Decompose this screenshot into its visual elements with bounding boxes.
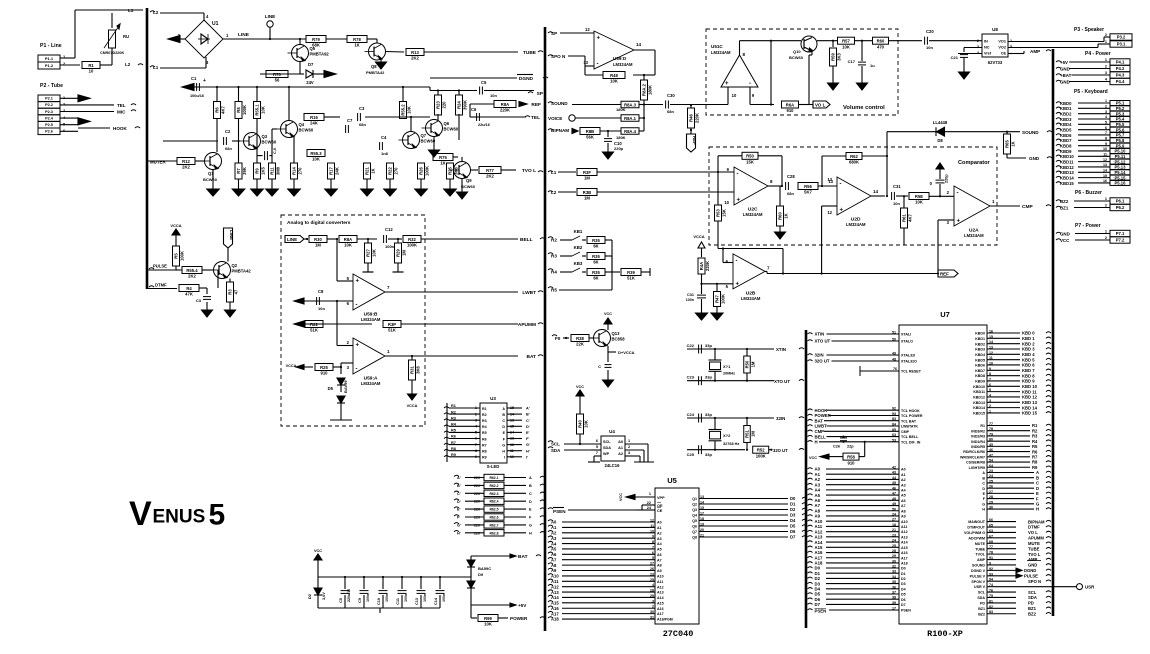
svg-text:R62.7: R62.7 (489, 523, 498, 527)
svg-text:D7: D7 (815, 602, 821, 607)
svg-text:2K2: 2K2 (411, 56, 419, 61)
svg-text:R48: R48 (610, 73, 618, 78)
svg-text:46: 46 (892, 486, 896, 490)
svg-text:R55.3: R55.3 (310, 151, 322, 156)
svg-text:A5: A5 (657, 548, 662, 552)
svg-text:68n: 68n (359, 122, 366, 127)
svg-text:SPON V: SPON V (971, 580, 985, 584)
svg-text:93: 93 (892, 412, 896, 416)
svg-text:3: 3 (947, 220, 950, 225)
svg-text:REF: REF (692, 136, 697, 145)
svg-text:R6A: R6A (786, 102, 794, 107)
svg-text:2: 2 (1105, 105, 1107, 109)
svg-text:220: 220 (474, 476, 480, 480)
svg-text:47K: 47K (185, 292, 193, 297)
svg-text:VCC: VCC (314, 549, 322, 553)
svg-text:C9: C9 (358, 598, 362, 603)
svg-text:KBD5: KBD5 (975, 358, 985, 362)
svg-text:BAT: BAT (526, 354, 536, 360)
svg-text:33p: 33p (705, 412, 712, 417)
svg-text:390K: 390K (463, 100, 468, 110)
svg-text:F0: F0 (555, 336, 561, 341)
svg-text:+BAT: +BAT (1060, 73, 1072, 78)
svg-text:53: 53 (892, 438, 896, 442)
svg-text:A16: A16 (901, 551, 908, 555)
svg-text:32: 32 (892, 565, 896, 569)
svg-text:P6 - Buzzer: P6 - Buzzer (1075, 190, 1102, 196)
svg-text:DGND: DGND (519, 76, 534, 82)
svg-text:R1: R1 (88, 63, 94, 68)
svg-text:KBD1: KBD1 (1060, 106, 1072, 111)
svg-text:D1: D1 (790, 502, 796, 507)
svg-text:P6.2: P6.2 (1116, 205, 1125, 210)
svg-text:BC858: BC858 (612, 337, 626, 342)
svg-text:KBD3: KBD3 (975, 348, 985, 352)
svg-text:L2: L2 (125, 62, 131, 67)
svg-text:TCL RESET: TCL RESET (901, 370, 922, 374)
svg-text:32768 Hz: 32768 Hz (723, 442, 739, 446)
svg-text:1M: 1M (402, 250, 407, 256)
svg-text:B: B (502, 413, 505, 417)
svg-text:LM324AM: LM324AM (613, 62, 633, 67)
svg-text:R62.5: R62.5 (489, 508, 498, 512)
svg-text:R35: R35 (592, 254, 600, 259)
svg-text:A18: A18 (901, 562, 908, 566)
svg-text:23: 23 (650, 572, 654, 576)
svg-text:R99: R99 (484, 616, 492, 621)
svg-text:28: 28 (650, 589, 654, 593)
svg-text:15K: 15K (722, 209, 727, 217)
svg-text:P5.8: P5.8 (1116, 138, 1125, 143)
svg-text:25: 25 (650, 578, 654, 582)
svg-text:11: 11 (1103, 153, 1107, 157)
svg-text:1: 1 (226, 33, 229, 38)
svg-text:P1.1: P1.1 (45, 56, 54, 61)
svg-text:A11: A11 (551, 579, 559, 584)
svg-text:1K: 1K (784, 213, 789, 218)
svg-text:C: C (982, 482, 985, 486)
svg-text:R78: R78 (353, 37, 361, 42)
svg-text:-: - (840, 182, 842, 188)
svg-text:R58: R58 (847, 454, 855, 459)
svg-text:D3: D3 (790, 513, 796, 518)
svg-text:6K: 6K (593, 244, 598, 249)
svg-text:C13: C13 (415, 598, 419, 605)
svg-text:R62.2: R62.2 (489, 484, 498, 488)
svg-text:7: 7 (652, 545, 654, 549)
svg-text:PSEN: PSEN (901, 609, 911, 613)
svg-text:470: 470 (877, 44, 885, 49)
svg-text:KBD7: KBD7 (975, 369, 985, 373)
svg-text:ENUS: ENUS (153, 507, 206, 528)
svg-text:R8A.4: R8A.4 (624, 129, 637, 134)
svg-text:R8A.3: R8A.3 (624, 102, 637, 107)
svg-text:KBD13: KBD13 (1060, 170, 1074, 175)
svg-text:R14: R14 (292, 166, 297, 174)
svg-text:30: 30 (892, 559, 896, 563)
svg-text:R8: R8 (451, 447, 456, 451)
svg-text:+5V: +5V (518, 603, 527, 608)
svg-text:17: 17 (892, 607, 896, 611)
svg-text:100u/16: 100u/16 (190, 94, 204, 98)
svg-text:Q13: Q13 (612, 331, 621, 336)
svg-text:24LC16: 24LC16 (605, 463, 621, 468)
svg-text:10: 10 (89, 69, 94, 74)
svg-text:KBD 7: KBD 7 (1022, 368, 1035, 373)
svg-text:R62.8: R62.8 (489, 531, 498, 535)
svg-text:R2: R2 (451, 410, 456, 414)
svg-text:P7 - Power: P7 - Power (1075, 223, 1101, 229)
svg-text:Analog to digital converters: Analog to digital converters (287, 220, 351, 226)
svg-text:CS/SER/R8: CS/SER/R8 (966, 461, 985, 465)
svg-text:KBD0: KBD0 (1060, 101, 1072, 106)
svg-text:E: E (503, 431, 506, 435)
svg-text:180K: 180K (648, 85, 653, 95)
svg-text:CMP: CMP (1022, 204, 1033, 210)
svg-text:A2: A2 (657, 531, 662, 535)
svg-text:VO1: VO1 (998, 40, 1006, 44)
svg-text:R46: R46 (689, 113, 694, 121)
svg-text:34: 34 (892, 575, 896, 579)
svg-text:P3 - Speaker: P3 - Speaker (1074, 27, 1104, 33)
svg-text:KBD13: KBD13 (973, 401, 985, 405)
svg-text:220K: 220K (500, 108, 510, 113)
svg-text:P2.1: P2.1 (45, 97, 53, 101)
svg-text:B': B' (457, 484, 461, 488)
svg-text:C2: C2 (225, 129, 231, 134)
svg-text:X?2: X?2 (723, 433, 731, 438)
svg-text:KBD 8: KBD 8 (1022, 373, 1035, 378)
svg-text:A5: A5 (901, 494, 906, 498)
svg-text:R9: R9 (482, 456, 487, 460)
svg-text:A13: A13 (657, 591, 664, 595)
svg-text:48: 48 (892, 358, 896, 362)
svg-text:13: 13 (1103, 163, 1107, 167)
svg-text:LM324AM: LM324AM (361, 317, 381, 322)
svg-text:SDA: SDA (977, 596, 985, 600)
svg-text:E': E' (526, 431, 530, 435)
svg-text:A12: A12 (551, 584, 559, 589)
svg-text:MUTE: MUTE (975, 542, 986, 546)
svg-text:KBD4: KBD4 (1060, 122, 1072, 127)
svg-text:I: I (504, 456, 505, 460)
svg-text:R75: R75 (439, 155, 447, 160)
svg-text:D2: D2 (790, 507, 796, 512)
svg-text:Q6: Q6 (444, 121, 450, 126)
svg-text:BELL: BELL (520, 237, 533, 243)
svg-text:R6: R6 (451, 435, 456, 439)
svg-text:R1: R1 (482, 407, 487, 411)
svg-text:BZ1: BZ1 (1060, 206, 1069, 211)
svg-text:5K7: 5K7 (804, 190, 812, 195)
svg-text:D': D' (526, 425, 530, 429)
svg-text:270: 270 (298, 167, 303, 175)
svg-text:C26: C26 (833, 445, 840, 449)
svg-text:BZ2: BZ2 (1028, 611, 1037, 616)
svg-text:A10: A10 (551, 574, 559, 579)
svg-text:P2.3: P2.3 (45, 110, 53, 114)
svg-text:VOL/PWM G: VOL/PWM G (964, 531, 985, 535)
svg-text:VOICE: VOICE (548, 116, 562, 121)
svg-text:TCL HOOK: TCL HOOK (901, 409, 920, 413)
svg-text:P5.4: P5.4 (1116, 117, 1125, 122)
svg-text:+: + (840, 208, 844, 214)
svg-text:SP: SP (537, 91, 544, 97)
svg-text:63: 63 (892, 433, 896, 437)
svg-text:KBD12: KBD12 (1060, 165, 1074, 170)
svg-text:P2.2: P2.2 (45, 103, 53, 107)
svg-text:KBD9: KBD9 (1060, 149, 1072, 154)
svg-text:P5.11: P5.11 (1115, 154, 1126, 159)
svg-text:43: 43 (892, 471, 896, 475)
svg-text:TCL BAT: TCL BAT (901, 419, 917, 423)
svg-text:2: 2 (1105, 65, 1107, 69)
svg-text:VO2: VO2 (998, 46, 1006, 50)
svg-text:R40: R40 (578, 419, 583, 427)
svg-text:910: 910 (848, 460, 856, 465)
svg-text:100K: 100K (721, 294, 726, 304)
svg-text:3: 3 (1105, 110, 1107, 114)
svg-text:1: 1 (1105, 40, 1107, 44)
svg-text:Vref: Vref (984, 52, 992, 56)
svg-text:LIGHT/R9: LIGHT/R9 (969, 466, 985, 470)
svg-text:VPP: VPP (657, 496, 665, 500)
svg-text:A11: A11 (901, 525, 907, 529)
svg-text:R1: R1 (451, 404, 456, 408)
svg-text:8: 8 (770, 179, 773, 184)
svg-text:P5.9: P5.9 (1116, 143, 1125, 148)
svg-text:10n: 10n (318, 306, 325, 311)
svg-text:26: 26 (650, 567, 654, 571)
svg-text:IND1/R4: IND1/R4 (971, 440, 985, 444)
svg-text:+: + (356, 279, 360, 285)
svg-text:50: 50 (892, 338, 896, 342)
svg-text:KBD0: KBD0 (975, 332, 985, 336)
svg-text:PSEN: PSEN (815, 609, 827, 614)
svg-text:D4: D4 (790, 518, 796, 523)
svg-text:Q8: Q8 (371, 64, 377, 69)
svg-text:5: 5 (347, 276, 350, 281)
svg-text:10K: 10K (584, 420, 589, 428)
svg-text:910: 910 (321, 371, 329, 376)
svg-text:P3.1: P3.1 (1117, 42, 1126, 47)
svg-text:R35: R35 (592, 238, 600, 243)
svg-text:27C040: 27C040 (663, 629, 694, 639)
svg-text:R4A: R4A (699, 262, 704, 270)
svg-text:R38: R38 (576, 336, 584, 341)
svg-text:TCL DIF_IN: TCL DIF_IN (901, 440, 921, 444)
svg-text:BZ1: BZ1 (978, 607, 985, 611)
svg-text:10K: 10K (484, 622, 492, 627)
svg-text:R62.3: R62.3 (489, 492, 498, 496)
svg-text:Volume control: Volume control (843, 105, 885, 111)
svg-text:10K: 10K (261, 106, 266, 114)
svg-text:2K2: 2K2 (188, 274, 196, 279)
svg-text:21: 21 (892, 528, 896, 532)
svg-text:3: 3 (652, 599, 654, 603)
svg-text:180K: 180K (616, 135, 626, 140)
svg-text:U51C: U51C (711, 44, 723, 49)
svg-text:-: - (957, 191, 959, 197)
svg-text:10: 10 (724, 200, 729, 205)
svg-text:+: + (957, 219, 961, 225)
svg-text:KBD12: KBD12 (973, 396, 985, 400)
svg-text:TVOL: TVOL (975, 553, 985, 557)
svg-text:P5.5: P5.5 (1116, 122, 1125, 127)
svg-text:12: 12 (827, 210, 832, 215)
svg-text:3: 3 (1105, 71, 1107, 75)
svg-text:27: 27 (892, 518, 896, 522)
svg-text:P5.10: P5.10 (1115, 149, 1127, 154)
svg-text:H: H (815, 440, 818, 445)
svg-text:D4: D4 (901, 587, 906, 591)
svg-text:AMP: AMP (1028, 557, 1038, 562)
svg-text:24: 24 (892, 539, 896, 543)
svg-text:A9: A9 (901, 515, 906, 519)
svg-text:F: F (529, 516, 532, 520)
svg-text:51: 51 (892, 331, 896, 335)
svg-text:KBD3: KBD3 (1060, 117, 1072, 122)
svg-text:62V733: 62V733 (988, 60, 1003, 65)
svg-text:3: 3 (628, 451, 630, 455)
svg-text:A: A (502, 407, 505, 411)
svg-text:5: 5 (596, 445, 598, 449)
svg-text:L2: L2 (153, 10, 159, 15)
svg-text:C12: C12 (385, 227, 393, 232)
svg-text:KBD14: KBD14 (973, 406, 985, 410)
svg-text:R62: R62 (850, 154, 858, 159)
svg-text:1: 1 (387, 349, 390, 354)
svg-text:G: G (502, 443, 505, 447)
svg-text:VCCA: VCCA (693, 234, 704, 239)
svg-text:BCW60: BCW60 (461, 184, 476, 189)
svg-text:C1: C1 (191, 76, 197, 81)
svg-text:R8A.2: R8A.2 (642, 83, 647, 96)
svg-text:32IN: 32IN (815, 353, 824, 358)
svg-text:1K: 1K (440, 161, 445, 166)
svg-text:R61: R61 (902, 213, 907, 221)
svg-text:R3F: R3F (583, 170, 591, 175)
svg-text:6K: 6K (593, 260, 598, 265)
svg-text:SPO N: SPO N (1028, 579, 1041, 584)
svg-text:D1: D1 (901, 572, 906, 576)
svg-text:5: 5 (209, 499, 226, 532)
svg-text:R55.4: R55.4 (186, 268, 198, 273)
svg-text:TUBE: TUBE (523, 50, 537, 56)
svg-text:XTIN: XTIN (815, 332, 825, 337)
svg-text:CNR07D220K: CNR07D220K (100, 51, 125, 55)
svg-text:A18/PGM: A18/PGM (657, 618, 673, 622)
svg-text:32O UT: 32O UT (773, 448, 788, 453)
svg-text:VCC: VCC (619, 493, 623, 501)
svg-text:SCL: SCL (978, 591, 986, 595)
svg-text:R11: R11 (270, 167, 275, 175)
svg-text:B: B (982, 476, 985, 480)
svg-text:L2: L2 (551, 190, 557, 195)
svg-text:A8: A8 (901, 509, 906, 513)
svg-text:CE: CE (1001, 52, 1007, 56)
svg-text:TVO L: TVO L (522, 168, 536, 174)
svg-text:10n: 10n (926, 45, 933, 50)
svg-text:R16: R16 (310, 115, 318, 120)
svg-text:D2: D2 (901, 577, 906, 581)
svg-text:R60: R60 (877, 39, 885, 44)
svg-text:RD/RCLK/R6: RD/RCLK/R6 (963, 450, 985, 454)
svg-text:23: 23 (892, 533, 896, 537)
svg-text:SOUND: SOUND (1022, 130, 1039, 135)
svg-text:100n: 100n (442, 594, 446, 602)
svg-text:E: E (529, 508, 532, 512)
svg-text:2: 2 (1105, 204, 1107, 208)
svg-text:5: 5 (652, 556, 654, 560)
svg-text:+: + (597, 36, 601, 42)
svg-text:28: 28 (892, 549, 896, 553)
svg-text:P3.2: P3.2 (1117, 35, 1126, 40)
svg-text:10K: 10K (372, 249, 377, 257)
svg-text:KBD 10: KBD 10 (1022, 384, 1038, 389)
svg-text:P5.13: P5.13 (1115, 165, 1127, 170)
svg-text:CE: CE (657, 509, 663, 513)
svg-text:R30: R30 (314, 237, 322, 242)
svg-text:R3: R3 (451, 416, 456, 420)
svg-text:14: 14 (873, 189, 879, 194)
svg-text:1n8: 1n8 (381, 151, 389, 156)
svg-text:Q4: Q4 (299, 122, 305, 127)
svg-text:C7: C7 (347, 118, 353, 123)
svg-text:A0: A0 (657, 521, 662, 525)
svg-text:1: 1 (1105, 197, 1107, 201)
svg-text:51K: 51K (627, 276, 635, 281)
svg-text:56K: 56K (586, 135, 594, 140)
svg-text:22p: 22p (847, 445, 854, 449)
svg-text:KBD8: KBD8 (1060, 143, 1072, 148)
svg-text:L1: L1 (551, 170, 557, 175)
svg-text:LINE: LINE (287, 237, 297, 242)
svg-text:BIPNAM: BIPNAM (551, 128, 569, 133)
svg-text:A6: A6 (657, 553, 662, 557)
svg-text:LM324AM: LM324AM (741, 296, 761, 301)
svg-text:C4: C4 (381, 135, 387, 140)
svg-text:6: 6 (596, 439, 598, 443)
svg-text:100n: 100n (366, 594, 370, 602)
svg-text:3,6V: 3,6V (322, 592, 326, 600)
svg-text:10: 10 (732, 93, 737, 98)
svg-text:+: + (356, 343, 360, 349)
svg-text:+: + (736, 281, 740, 287)
svg-text:R5E: R5E (915, 194, 923, 199)
svg-text:C11: C11 (396, 598, 400, 605)
svg-text:SCL: SCL (1028, 590, 1037, 595)
svg-text:A2: A2 (901, 478, 906, 482)
svg-text:220: 220 (474, 500, 480, 504)
svg-text:39K: 39K (242, 167, 247, 175)
svg-text:KB2: KB2 (574, 245, 583, 250)
svg-text:R3P: R3P (388, 322, 396, 327)
svg-text:HOOK: HOOK (113, 126, 127, 131)
svg-text:10: 10 (650, 529, 654, 533)
svg-text:220: 220 (442, 101, 447, 109)
svg-text:A1: A1 (551, 525, 557, 530)
svg-text:R23: R23 (436, 100, 441, 108)
svg-text:D7: D7 (790, 535, 796, 540)
svg-text:9: 9 (652, 535, 654, 539)
svg-text:KBD1: KBD1 (975, 337, 985, 341)
svg-text:P7.1: P7.1 (1116, 231, 1125, 236)
svg-text:4K7: 4K7 (908, 213, 913, 221)
svg-text:47: 47 (234, 289, 239, 294)
svg-text:+: + (203, 78, 206, 84)
svg-text:3: 3 (347, 365, 350, 370)
